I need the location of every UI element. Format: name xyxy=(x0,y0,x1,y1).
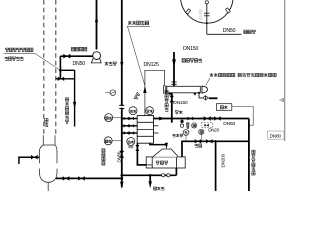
box bottom-right pipe to separator xyxy=(150,143,168,149)
svg-text:DN80: DN80 xyxy=(270,133,282,138)
DN50 water main east xyxy=(154,116,249,121)
pump discharge pipe xyxy=(95,0,98,50)
svg-text:DN150: DN150 xyxy=(173,100,188,106)
separator vessel xyxy=(146,149,185,168)
svg-text:~B: ~B xyxy=(279,98,285,103)
exchanger bottom tap xyxy=(198,92,218,100)
svg-text:DN125: DN125 xyxy=(144,62,159,68)
deaerator head circle xyxy=(181,0,234,23)
label low-temp supply xyxy=(182,59,186,63)
head overflow line xyxy=(207,33,242,35)
svg-text:DN50: DN50 xyxy=(116,151,121,162)
label half-clean water xyxy=(244,30,248,34)
svg-text:DN50: DN50 xyxy=(223,28,236,34)
vessel inlet pipe xyxy=(19,155,40,164)
dashed bypass xyxy=(202,123,213,128)
instrument bubble TI-2 xyxy=(127,138,135,148)
pump suction pipe xyxy=(60,55,92,57)
main header pipe xyxy=(120,0,123,189)
wall dashed line left xyxy=(43,0,45,135)
svg-text:DN50: DN50 xyxy=(73,61,86,67)
vertical label surplus water xyxy=(102,149,106,152)
separator feed line inside xyxy=(137,164,152,166)
instrument bubble drain xyxy=(192,123,197,128)
branch lower with valve xyxy=(56,78,75,80)
head vent pipe xyxy=(204,1,210,35)
DN50 drop pipe xyxy=(248,119,250,192)
return pipe from exchanger xyxy=(170,93,174,123)
note label: supergravity device xyxy=(127,21,150,86)
label steam xyxy=(195,144,199,148)
feed stubs header to box xyxy=(122,119,137,134)
svg-text:DN150: DN150 xyxy=(183,46,198,52)
label thermometer xyxy=(172,134,175,137)
svg-text:DN50: DN50 xyxy=(223,121,235,127)
note label: exchanger type xyxy=(206,73,277,86)
instrument bubble steam xyxy=(183,130,189,141)
sampling pots xyxy=(180,119,183,128)
stub double valves xyxy=(124,117,129,120)
DN80 tag xyxy=(268,131,285,139)
vertical label cold return xyxy=(165,91,169,94)
frame right border xyxy=(284,0,286,141)
wall dashed line right xyxy=(55,0,57,135)
distribution box xyxy=(137,116,158,144)
tank overflow thin pipe xyxy=(232,107,253,126)
vessel outlet line to header xyxy=(56,176,123,181)
label return water xyxy=(175,111,179,114)
valve on header lower xyxy=(119,151,124,158)
vertical label sampling pipe xyxy=(186,123,189,126)
label flowmeter xyxy=(105,62,109,66)
note label: valves insulated xyxy=(4,48,60,70)
svg-text:DN20: DN20 xyxy=(208,127,219,132)
ghost label in head circle xyxy=(199,9,202,12)
steam pipe xyxy=(182,139,249,157)
valve on suction xyxy=(63,54,70,59)
box bottom-left drain with valve xyxy=(135,143,146,165)
instrument bubble trap xyxy=(199,129,204,140)
DN200 drop pipe xyxy=(215,141,217,191)
union break on header xyxy=(119,105,124,108)
instrument bubble TI-1 xyxy=(129,107,137,115)
riser with junction xyxy=(59,56,62,79)
vertical label to deaerator tank xyxy=(65,98,69,101)
branch upper xyxy=(60,69,74,71)
DN150 feed pipe xyxy=(171,52,176,86)
label to pump xyxy=(153,187,156,190)
heat exchanger E1 xyxy=(164,85,208,95)
gauge bubble beside header xyxy=(105,90,115,96)
thin pipe box-top to exchanger xyxy=(143,70,164,115)
deaerator water tank vessel xyxy=(39,135,57,191)
instrument bubble PI-1 xyxy=(105,114,122,122)
rotated label vent xyxy=(134,92,140,100)
small tank box xyxy=(216,104,231,111)
vertical label to softened tank xyxy=(252,150,256,153)
svg-text:DN200: DN200 xyxy=(221,153,226,167)
pump P1 xyxy=(91,52,101,63)
instrument bubble PI-2 xyxy=(104,137,122,145)
label surplus hot water xyxy=(71,47,75,51)
condensate line east of header xyxy=(121,168,177,188)
vertical label between walls xyxy=(44,119,48,123)
downpipe to deaerator tank xyxy=(73,70,76,126)
instrument bubble SV-1 xyxy=(146,107,154,115)
